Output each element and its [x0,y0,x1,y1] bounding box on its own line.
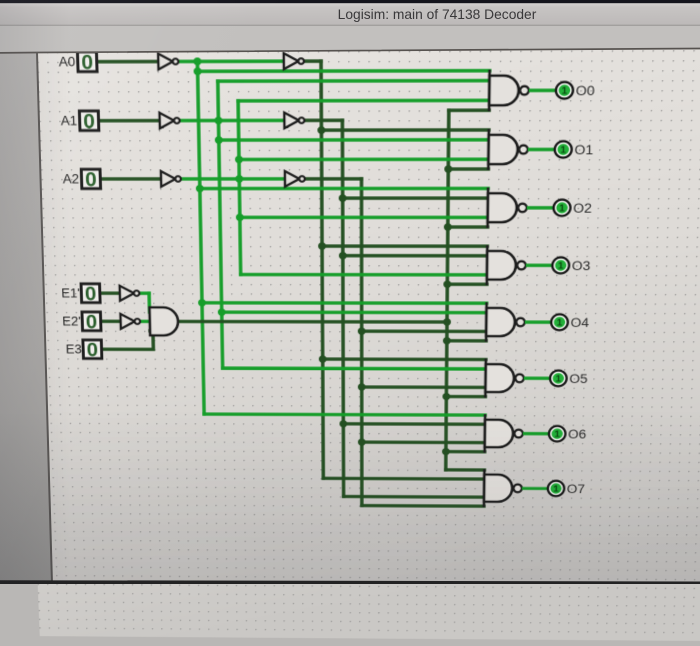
NAND gate G3 input leg [486,245,489,285]
NAND gate G7 input leg [483,469,486,507]
wire gate input tap y=100 [238,99,489,103]
wire gate input tap y=110 [449,109,489,113]
node junction (200,60) [193,57,201,65]
NAND gate G0 [489,76,519,106]
node junction (240,220) [236,214,244,222]
wire NAND G4 output [525,320,552,324]
svg-text:Logisim: main of 74138 Decoder: Logisim: main of 74138 Decoder [338,7,537,22]
wire A1' row [179,119,285,123]
inverter U1b (A0 stage 2) [284,53,304,69]
output pin O5 [550,371,567,387]
wire rail A0 vertical [321,61,323,478]
wire gate input tap y=320 [222,310,487,314]
input pin E1' [81,283,100,305]
node junction (363,460) [358,438,366,445]
wire gate input tap y=500 [323,477,484,481]
inverter U5 (E2' inverter) [120,314,140,329]
NAND gate G0 input leg [488,70,491,112]
input pin A0 [77,51,97,74]
wire gate input tap y=460 [362,440,485,444]
node junction (240,160) [235,156,243,164]
wire gate input tap y=200 [343,196,488,200]
wire A2 buffered out [304,177,362,181]
wire gate input tap y=250 [322,244,487,248]
wire rail A1 vertical [342,120,343,496]
wire gate input tap y=490 [446,468,485,472]
wire gate input tap y=530 [362,504,484,508]
wire E1' pin to inverter U4 [100,291,119,295]
output pin O2 [553,200,570,216]
input pin E2' [82,312,101,333]
node junction (450,350) [443,337,451,345]
node junction (323,250) [318,242,326,250]
wire gate input tap y=130 [321,128,488,132]
node junction (200,310) [198,299,206,307]
wire gate input tap y=160 [239,158,488,162]
wire rail A2-bar vertical [238,101,241,275]
input pin E3 [83,340,102,361]
node junction (344,260) [339,252,347,260]
node junction (344,200) [339,194,347,202]
wire gate input tap y=230 [448,225,488,229]
wire E1 inverter out [139,292,149,296]
output pin O7 [548,481,565,496]
wire gate input tap y=220 [240,216,488,220]
output pin O3 [552,257,569,273]
node junction (240,180) [235,175,243,183]
inverter U1a (A0 stage 1) [158,54,178,70]
wire A0 buffered out [303,59,321,63]
node junction (450,330) [443,318,451,326]
NAND gate G4 input leg [485,302,488,341]
wire gate input tap y=440 [343,422,485,426]
node junction (450,230) [444,223,452,231]
wire gate input tap y=470 [446,450,485,454]
wire A2' row [180,177,285,181]
wire A0' row [177,59,283,63]
NAND gate G2 input leg [486,187,489,228]
wire A1 pin to inverter U2a [99,119,160,123]
wire rail G enable vertical [446,110,449,469]
wire E2 inverter out [140,320,150,324]
node junction (363,400) [358,383,366,390]
output pin O1 [555,141,572,157]
wire E3 pin to AND gate [101,331,153,350]
node junction (200,70) [194,67,202,75]
wire gate input tap y=310 [202,301,487,305]
output pin O4 [551,314,568,330]
wire A0 pin to inverter U1a [97,60,158,64]
node junction (344,440) [339,420,347,427]
wire gate input tap y=430 [204,412,485,416]
node junction (220,320) [218,308,226,316]
inverter U4 (E1' inverter) [120,286,140,301]
wire NAND G0 output [529,89,556,93]
inverter U3b (A2 stage 2) [285,171,305,186]
wire gate input tap y=350 [447,339,486,343]
node junction (220,120) [214,117,222,125]
wire gate input tap y=520 [344,495,484,499]
wire gate input tap y=400 [362,385,486,389]
output pin O0 [556,82,573,99]
wire NAND G5 output [524,376,550,380]
NAND gate G3 [487,251,516,280]
wire gate input tap y=380 [223,366,486,370]
left margin of canvas [0,53,52,585]
wire A1 buffered out [303,119,342,123]
bottom dark band [0,580,700,584]
NAND gate G2 [488,193,517,222]
wire gate input tap y=170 [448,167,488,171]
input pin A2 [81,169,100,191]
wire A2 pin to inverter U3a [101,177,161,181]
title bar [0,3,700,25]
wire NAND G2 output [527,206,554,210]
wire G enable AND output [179,320,447,324]
window top black band [0,0,700,3]
toolbar band [0,26,700,53]
wire NAND G7 output [522,487,548,491]
NAND gate G5 [485,364,514,392]
NAND gate G4 [486,308,515,336]
wire gate input tap y=140 [219,138,489,142]
node junction (450,470) [442,448,450,455]
node junction (323,370) [319,355,327,362]
wire gate input tap y=70 [198,69,490,73]
wire E2' pin to inverter U5 [101,320,120,324]
input pin A1 [79,111,99,133]
output pin O6 [549,426,566,441]
wire E1 down to AND input [147,293,151,312]
wire NAND G1 output [528,148,555,152]
wire NAND G6 output [523,432,549,436]
wire NAND G3 output [526,264,553,268]
wire gate input tap y=370 [323,357,486,361]
node junction (450,410) [442,393,450,400]
node junction (450,170) [444,165,452,173]
NAND gate G1 input leg [487,129,490,170]
node junction (363,340) [358,327,366,335]
node junction (450,290) [443,280,451,288]
inverter U2a (A1 stage 1) [160,113,180,129]
wire gate input tap y=280 [241,273,487,277]
NAND gate G5 input leg [484,359,487,398]
wire gate input tap y=340 [362,329,487,333]
NAND gate G6 input leg [483,414,486,452]
wire gate input tap y=190 [200,187,488,191]
NAND gate G1 [488,135,518,164]
wire gate input tap y=410 [446,395,485,399]
inverter U2b (A1 stage 2) [284,113,304,129]
node junction (323,130) [317,126,325,134]
wire gate input tap y=290 [447,283,486,287]
NAND gate G7 [484,475,512,502]
canvas top border [0,49,700,53]
wire gate input tap y=260 [343,254,487,258]
inverter U3a (A2 stage 1) [161,171,181,186]
canvas left border [37,53,52,585]
AND gate U6 (enable G) [149,307,178,335]
wire gate input tap y=80 [218,79,490,83]
wire rail A2 vertical [360,179,364,506]
node junction (200,190) [196,185,204,193]
node junction (220,140) [215,136,223,144]
wire rail A1-bar vertical [218,81,223,368]
NAND gate G6 [485,420,514,448]
wire rail A0-bar vertical [197,61,204,414]
